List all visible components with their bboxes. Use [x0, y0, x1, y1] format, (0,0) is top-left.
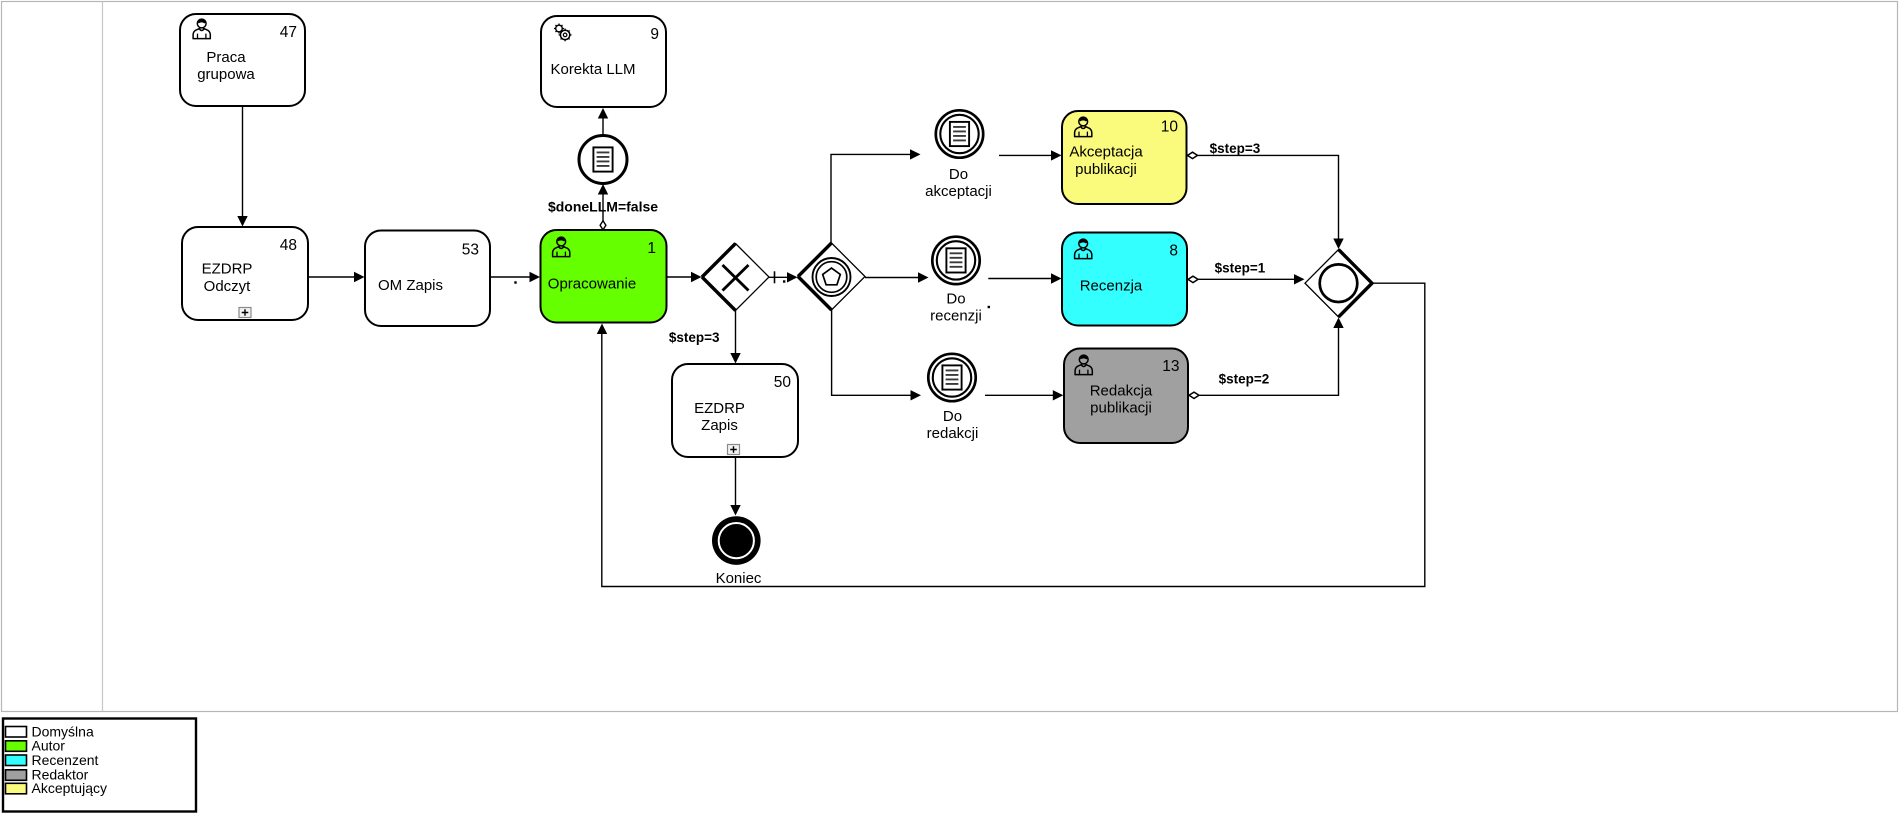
svg-text:Recenzja: Recenzja [1080, 278, 1143, 295]
svg-text:$doneLLM=false: $doneLLM=false [548, 199, 658, 215]
svg-text:Redakcja: Redakcja [1090, 383, 1153, 400]
svg-text:$step=3: $step=3 [669, 330, 720, 345]
svg-text:EZDRP: EZDRP [202, 261, 253, 278]
svg-text:Korekta LLM: Korekta LLM [550, 61, 635, 78]
svg-text:Zapis: Zapis [701, 417, 738, 434]
svg-text:Do: Do [946, 291, 965, 308]
svg-text:Odczyt: Odczyt [204, 278, 252, 295]
svg-text:8: 8 [1169, 243, 1178, 260]
svg-text:EZDRP: EZDRP [694, 400, 745, 417]
svg-text:Recenzent: Recenzent [32, 752, 99, 768]
svg-text:Koniec: Koniec [716, 570, 762, 587]
svg-text:Opracowanie: Opracowanie [548, 276, 636, 293]
svg-text:Do: Do [943, 408, 962, 425]
svg-text:53: 53 [462, 242, 479, 259]
svg-text:10: 10 [1161, 119, 1179, 136]
svg-text:47: 47 [280, 24, 297, 41]
svg-text:recenzji: recenzji [930, 308, 982, 325]
svg-text:1: 1 [647, 240, 656, 257]
svg-text:Do: Do [949, 166, 968, 183]
svg-text:$step=3: $step=3 [1210, 141, 1261, 156]
svg-text:13: 13 [1162, 358, 1179, 375]
svg-text:48: 48 [280, 237, 297, 254]
svg-text:OM Zapis: OM Zapis [378, 277, 443, 294]
svg-text:redakcji: redakcji [927, 425, 979, 442]
svg-text:50: 50 [774, 374, 792, 391]
svg-text:akceptacji: akceptacji [925, 183, 992, 200]
svg-text:9: 9 [650, 26, 659, 43]
svg-text:Akceptacja: Akceptacja [1069, 144, 1143, 161]
svg-text:grupowa: grupowa [197, 66, 255, 83]
svg-text:$step=2: $step=2 [1219, 372, 1270, 387]
svg-text:publikacji: publikacji [1075, 161, 1137, 178]
svg-text:Akceptujący: Akceptujący [32, 780, 107, 796]
svg-text:publikacji: publikacji [1090, 400, 1152, 417]
svg-text:$step=1: $step=1 [1215, 261, 1266, 276]
svg-text:Praca: Praca [206, 49, 246, 66]
